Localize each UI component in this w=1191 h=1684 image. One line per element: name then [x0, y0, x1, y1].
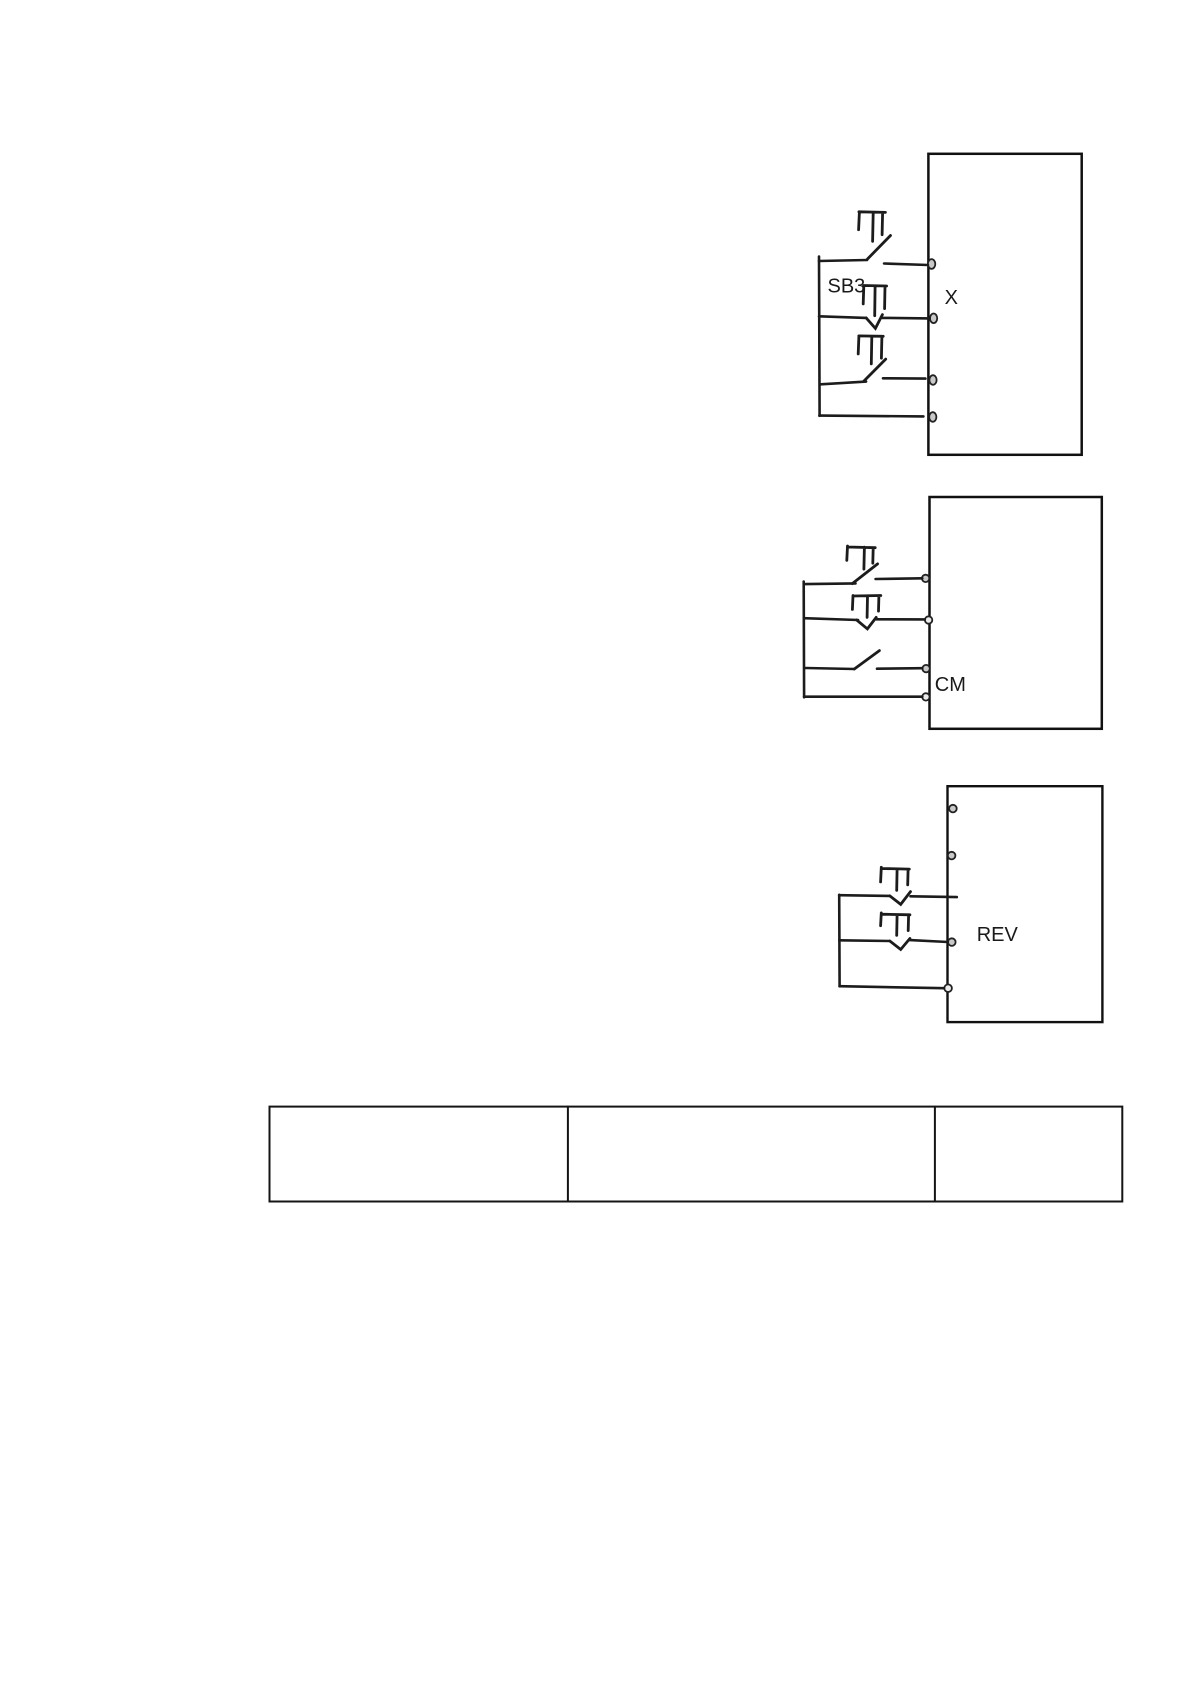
svg-text:REV: REV: [977, 924, 1019, 946]
terminal pin 1 of X block: [928, 259, 935, 269]
wire bus to pin 4 (common return, diagram 3): [840, 986, 944, 988]
pushbutton NC bridge V (diagram 3 switch 1): [890, 892, 911, 905]
pushbutton actuator of diagram 3 switch 1: [881, 867, 910, 890]
pushbutton actuator of diagram 2 switch 2: [852, 596, 880, 618]
wire from bus to switch 2 (diagram 2): [804, 618, 858, 620]
wire switch 2 to pin 2: [882, 317, 929, 320]
terminal pin 3 of X block: [929, 375, 936, 385]
pushbutton actuator of switch 3: [858, 336, 883, 364]
terminal pin 1 of REV block: [949, 805, 957, 813]
pushbutton contact blade (diagram 2 switch 1, NO): [852, 564, 877, 584]
terminal pin 3 of REV block: [948, 938, 956, 946]
wire from bus to switch 3: [821, 382, 866, 385]
terminal pin 3 of CM block: [922, 665, 929, 672]
terminal pin 4 of X block: [929, 412, 936, 422]
wire from bus to switch 2: [819, 316, 866, 318]
terminal pin 1 of CM block: [922, 575, 929, 582]
table column divider 1: [567, 1107, 569, 1202]
table column divider 2: [934, 1107, 936, 1202]
terminal pin 2 of REV block: [948, 852, 956, 860]
wire from bus to switch 1 (diagram 2): [806, 582, 856, 585]
svg-text:X: X: [945, 287, 958, 309]
PLC input block X (box U1): [928, 154, 1081, 455]
terminal pin 2 of CM block: [925, 616, 932, 623]
pushbutton actuator of switch 2 (SB3): [863, 286, 886, 316]
wire from bus to switch 2 (diagram 3): [839, 939, 890, 942]
pushbutton contact blade (switch 3, NO): [864, 359, 886, 381]
terminal pin 4 of REV block: [944, 984, 952, 992]
wire switch 3 to pin 3: [883, 377, 925, 380]
pushbutton SB? contact blade (switch 1, NO): [868, 236, 891, 260]
wire from bus to switch 3 (diagram 2): [806, 668, 855, 669]
wire bus to pin 4 (common return, diagram 1): [819, 414, 923, 417]
pushbutton actuator of switch 1: [859, 212, 886, 242]
pushbutton NC bridge V (diagram 3 switch 2): [890, 939, 910, 950]
wire switch 1 to pin 1 (diagram 2): [876, 577, 923, 580]
PLC input block REV (box U3): [948, 786, 1103, 1022]
wire from bus to switch 1: [819, 260, 867, 261]
wire switch 1 into box edge (diagram 3): [911, 895, 957, 898]
wire switch 2 to pin 3 (diagram 3): [910, 940, 948, 942]
terminal pin 4 of CM block: [922, 693, 929, 700]
wire left bus of diagram 1: [818, 257, 821, 416]
relay contact blade (diagram 2 switch 3, NO): [854, 651, 879, 669]
wire switch 3 to pin 3 (diagram 2): [877, 667, 922, 670]
terminal pin 2 of X block: [930, 314, 937, 324]
pushbutton NC bridge V (diagram 2 switch 2): [857, 617, 877, 629]
svg-text:CM: CM: [935, 674, 966, 696]
PLC input block CM (box U2): [930, 497, 1102, 729]
pushbutton SB3 NC bridge (V contact): [866, 315, 882, 329]
pushbutton actuator of diagram 3 switch 2: [881, 913, 910, 936]
wire left bus of diagram 3: [838, 895, 841, 987]
wire switch 1 to pin 1: [884, 264, 928, 266]
wire bus to pin 4 (common return, diagram 2): [804, 695, 922, 698]
wire from bus to switch 1 (diagram 3): [839, 894, 890, 897]
svg-text:SB3: SB3: [828, 275, 866, 297]
pushbutton actuator of diagram 2 switch 1: [847, 546, 875, 569]
wire left bus of diagram 2: [802, 582, 805, 698]
wire switch 2 to pin 2 (diagram 2): [876, 618, 925, 621]
table outer frame: [270, 1107, 1123, 1202]
